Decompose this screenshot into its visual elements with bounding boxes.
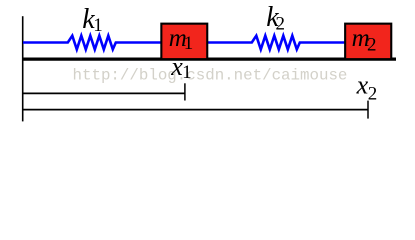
svg-text:1: 1: [182, 62, 192, 83]
svg-text:1: 1: [184, 33, 194, 54]
svg-text:http://blog.csdn.net/caimouse: http://blog.csdn.net/caimouse: [73, 66, 348, 84]
tick x2: [367, 101, 369, 119]
svg-text:2: 2: [367, 34, 377, 55]
wire + spring k2 zigzag: [207, 36, 346, 50]
tick x1: [184, 83, 186, 100]
svg-text:2: 2: [276, 14, 286, 35]
svg-text:1: 1: [93, 15, 103, 36]
wall: [22, 16, 24, 121]
mass m2: [345, 24, 391, 60]
dimension line x1: [22, 92, 185, 94]
svg-text:2: 2: [368, 83, 378, 104]
wire + spring k1 zigzag: [23, 36, 162, 50]
dimension line x2: [22, 109, 368, 111]
mass m1: [161, 24, 207, 60]
ground: [22, 57, 396, 60]
svg-text:x: x: [356, 71, 369, 100]
